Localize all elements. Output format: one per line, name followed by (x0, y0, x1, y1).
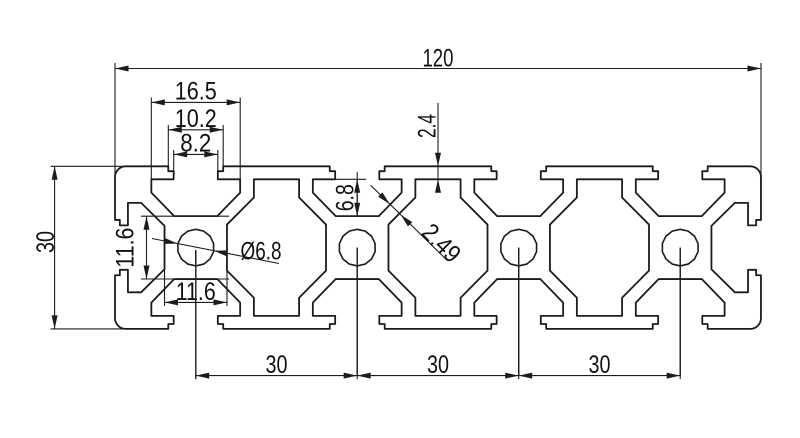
svg-text:2.4: 2.4 (413, 114, 441, 138)
svg-text:6.8: 6.8 (332, 184, 360, 211)
svg-text:2.49: 2.49 (416, 218, 466, 268)
svg-text:120: 120 (422, 45, 453, 73)
svg-text:Ø6.8: Ø6.8 (241, 238, 282, 266)
svg-text:30: 30 (588, 351, 610, 379)
svg-text:8.2: 8.2 (180, 130, 211, 158)
svg-text:16.5: 16.5 (175, 78, 217, 106)
svg-text:30: 30 (427, 351, 449, 379)
svg-text:30: 30 (32, 231, 60, 253)
svg-text:11.6: 11.6 (112, 228, 140, 268)
svg-text:30: 30 (265, 351, 287, 379)
